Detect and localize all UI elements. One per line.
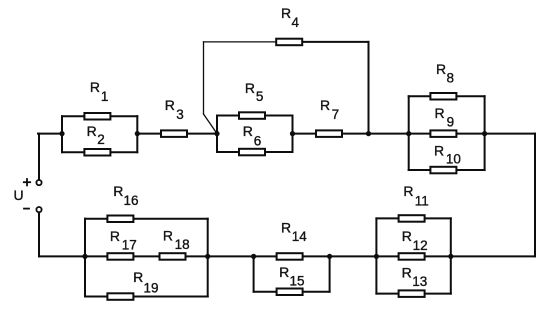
wire R16 block to R14 block [208, 255, 254, 257]
svg-text:1: 1 [101, 89, 109, 104]
svg-text:R: R [434, 142, 444, 158]
label R15 [279, 264, 304, 289]
svg-text:3: 3 [176, 107, 184, 122]
svg-text:11: 11 [415, 193, 429, 208]
wire R8R9R10 block left vertical [408, 96, 410, 170]
resistor R11 [399, 215, 425, 222]
wire R11R12R13 block right vertical [450, 218, 452, 293]
wire R2 branch [62, 151, 137, 153]
svg-text:15: 15 [290, 274, 305, 289]
resistor R2 [84, 149, 110, 156]
resistor R15 [277, 289, 303, 296]
svg-text:R: R [87, 123, 97, 139]
resistor R16 [107, 216, 133, 223]
svg-text:R: R [110, 228, 120, 244]
wire R1R2 block left vertical [61, 116, 63, 152]
wire R5 branch [217, 115, 293, 117]
label R17 [110, 228, 137, 252]
svg-text:R: R [133, 269, 143, 285]
wire right edge vertical [534, 134, 536, 257]
svg-text:10: 10 [446, 152, 461, 167]
node R1R2 left [59, 131, 64, 136]
node R11 block left [374, 254, 379, 259]
svg-text:13: 13 [412, 274, 427, 289]
wire R14 block to R11 block [330, 255, 377, 257]
minus sign [24, 208, 29, 210]
label R13 [402, 264, 428, 289]
wire R4 top branch left [204, 41, 278, 43]
label R14 [281, 219, 307, 244]
svg-text:R: R [165, 97, 175, 113]
wire R8R9R10 block right vertical [484, 96, 486, 170]
resistor R8 [430, 93, 456, 100]
wire R4 left vertical [203, 42, 205, 114]
svg-text:R: R [402, 228, 412, 244]
node R16 block left [82, 254, 87, 259]
wire R1R2 to node A through R3 [137, 133, 217, 135]
svg-text:6: 6 [254, 133, 262, 148]
label R16 [113, 183, 138, 208]
wire R13 branch [376, 293, 450, 295]
svg-text:17: 17 [122, 238, 137, 253]
wire R5R6 to R8 block through R7 [293, 133, 409, 135]
label R11 [403, 183, 428, 208]
wire R14R15 left vertical [253, 256, 255, 291]
label R12 [402, 228, 428, 253]
resistor R14 [277, 253, 303, 260]
resistor R12 [399, 253, 425, 260]
node R14 block left [251, 254, 256, 259]
node R8 block left [406, 131, 411, 136]
label R4 [281, 5, 300, 30]
svg-text:16: 16 [124, 193, 139, 208]
svg-text:R: R [163, 227, 173, 243]
wire from + terminal up to top row [38, 134, 40, 181]
svg-text:19: 19 [144, 281, 159, 296]
label R3 [165, 97, 184, 122]
node A (R3/R4/R5 junction) [214, 131, 219, 136]
wire R19 branch [85, 296, 208, 298]
wire from - terminal down to bottom row [38, 212, 40, 256]
wire R4 right vertical down to node B [368, 42, 370, 134]
resistor R19 [107, 293, 133, 300]
resistor R18 [160, 253, 186, 260]
wire R14R15 right vertical [329, 256, 331, 291]
wire R4 top branch right [301, 41, 369, 43]
plus sign [24, 179, 30, 185]
resistor R6 [239, 149, 265, 156]
label R8 [436, 61, 454, 85]
svg-text:7: 7 [332, 107, 340, 122]
svg-text:U: U [14, 187, 24, 203]
wire R6 branch [217, 151, 293, 153]
svg-text:R: R [281, 219, 291, 235]
wire R16R19 block right vertical [207, 219, 209, 297]
terminal - circle [36, 207, 41, 212]
resistor R17 [107, 253, 133, 260]
wire top row into R1R2 block [38, 133, 62, 135]
svg-text:R: R [436, 61, 446, 77]
node R1R2 right [135, 131, 140, 136]
svg-text:4: 4 [292, 15, 300, 30]
label R6 [243, 123, 262, 149]
wire R1 branch [62, 115, 137, 117]
resistor R13 [399, 290, 425, 297]
wire R16R19 block left vertical [84, 219, 86, 297]
label R18 [163, 227, 190, 251]
svg-text:R: R [245, 80, 255, 96]
svg-text:R: R [435, 105, 445, 121]
resistor R5 [239, 112, 265, 119]
label R5 [245, 80, 264, 104]
node R16 block right [205, 254, 210, 259]
wire R8 branch [409, 95, 485, 97]
wire R5R6 block left vertical [216, 116, 218, 153]
resistor R1 [84, 113, 110, 120]
svg-text:R: R [279, 264, 289, 280]
wire R4 diagonal from node A [204, 114, 218, 134]
wire R12 branch [376, 255, 450, 257]
svg-text:5: 5 [256, 89, 264, 104]
label R10 [434, 142, 461, 166]
svg-text:8: 8 [447, 70, 455, 85]
resistor R4 [276, 39, 302, 46]
svg-text:2: 2 [97, 132, 105, 147]
wire R14 branch [254, 255, 330, 257]
resistor R10 [430, 167, 456, 174]
svg-text:9: 9 [447, 115, 455, 130]
label R19 [133, 269, 158, 295]
wire R1R2 block right vertical [136, 116, 138, 152]
wire R15 branch [254, 291, 330, 293]
wire bottom right to node C [451, 255, 535, 257]
wire R17 R18 branch [85, 255, 208, 257]
resistor R9 [430, 130, 456, 137]
resistor R7 [316, 130, 342, 137]
terminal + circle [36, 180, 41, 185]
node B (R4/R7 junction) [366, 131, 371, 136]
svg-text:18: 18 [175, 237, 190, 252]
label R1 [90, 79, 109, 104]
label R7 [320, 97, 339, 122]
svg-text:R: R [113, 183, 123, 199]
svg-text:12: 12 [413, 238, 428, 253]
wire R16 branch [85, 218, 208, 220]
resistor R3 [161, 130, 187, 137]
wire R11R12R13 block left vertical [375, 218, 377, 293]
wire R11 branch [376, 217, 450, 219]
svg-text:R: R [243, 123, 253, 139]
wire bottom row into R16 block [39, 255, 85, 257]
svg-text:R: R [320, 97, 330, 113]
label R2 [87, 123, 105, 147]
node R8 block right [482, 131, 487, 136]
wire top row to right edge [485, 133, 535, 135]
wire R9 branch [409, 133, 485, 135]
svg-text:R: R [281, 5, 291, 21]
svg-text:R: R [402, 264, 412, 280]
wire R5R6 block right vertical [292, 116, 294, 153]
svg-text:R: R [90, 79, 100, 95]
wire R10 branch [409, 169, 485, 171]
label R9 [435, 105, 455, 130]
svg-text:R: R [403, 183, 413, 199]
node R14 block right [327, 254, 332, 259]
node R5R6 right [290, 131, 295, 136]
node C (R11 block right) [448, 254, 453, 259]
svg-text:14: 14 [292, 229, 308, 244]
